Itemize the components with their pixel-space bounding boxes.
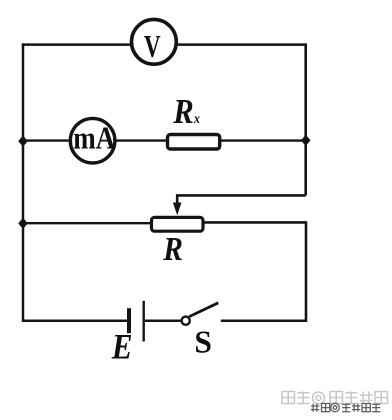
svg-text:mA: mA: [73, 121, 115, 155]
svg-text:E: E: [111, 328, 133, 368]
wire: right vertical lower: [305, 221, 308, 322]
wire: wiper lead: [177, 195, 306, 204]
wire: rheostat left lead: [23, 222, 151, 224]
wire: battery to switch: [145, 320, 181, 323]
rheostat R box: [152, 217, 204, 231]
battery E: [129, 301, 144, 342]
wire: rheostat right lead: [204, 221, 307, 224]
svg-text:V: V: [144, 28, 161, 63]
label R: [162, 230, 183, 267]
node: junction left rheostat row: [18, 218, 28, 229]
resistor Rx: [168, 135, 220, 150]
node: junction right meter row: [301, 135, 311, 146]
wiper arrow: [173, 203, 182, 216]
wire: switch to right segment: [221, 320, 306, 323]
label E: [111, 328, 133, 368]
node: junction left meter row: [18, 136, 28, 147]
wire: bottom left segment: [23, 320, 128, 323]
svg-text:R: R: [162, 230, 183, 267]
wire: meter row horizontal: [23, 139, 306, 141]
wire: left vertical: [22, 43, 25, 322]
switch S: [182, 303, 219, 325]
voltmeter V: [132, 19, 177, 64]
svg-text:Rx: Rx: [172, 93, 200, 131]
wire: right vertical upper: [304, 43, 307, 195]
wire: top horizontal: [22, 43, 306, 46]
label Rx: [172, 93, 200, 131]
milliammeter mA: [70, 118, 115, 163]
svg-text:S: S: [194, 325, 212, 360]
watermark text: [282, 392, 388, 412]
